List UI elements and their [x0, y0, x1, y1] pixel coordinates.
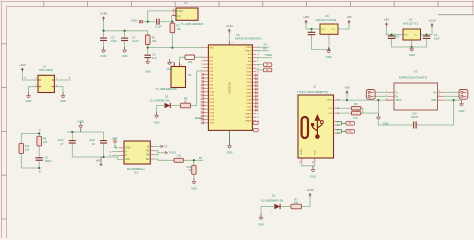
svg-text:IO47: IO47 — [247, 107, 253, 109]
junction U6 gnd rail — [328, 48, 330, 50]
svg-text:6: 6 — [201, 71, 202, 73]
resistor R12 — [192, 165, 196, 174]
net label box D- at U4 — [263, 63, 271, 67]
svg-text:27: 27 — [257, 61, 259, 63]
GND net flag symbol — [140, 20, 143, 23]
svg-text:ESP32-S3-WROOM-1: ESP32-S3-WROOM-1 — [235, 36, 262, 40]
svg-text:42: 42 — [257, 113, 259, 115]
power flag +5V at U2 — [384, 18, 389, 27]
junction VBUS +5V tap — [346, 99, 348, 101]
svg-text:NC: NC — [433, 92, 437, 94]
svg-text:GND: GND — [167, 67, 173, 71]
U4 right pin stubs — [252, 47, 256, 121]
wire U4 D- stub — [256, 64, 263, 66]
svg-text:GND: GND — [310, 175, 316, 179]
J2 D+ lower pins joined — [336, 130, 346, 134]
connector J3 left of U3 — [366, 90, 375, 100]
wire S1 pin3 up to R3 — [180, 57, 185, 62]
wire VBUS drop to C10 loop — [377, 100, 379, 117]
IC1 right pin stubs — [150, 146, 154, 159]
junction 3.8V rail at C4 — [123, 30, 125, 32]
IC1 left pin stubs — [119, 148, 124, 156]
ground symbol under U1 left — [26, 92, 32, 103]
USB connector J2 body — [298, 95, 334, 158]
svg-text:ESP32-S3: ESP32-S3 — [229, 82, 232, 94]
resistor R6 — [351, 111, 360, 115]
U4 right no-connect crosses — [255, 74, 258, 112]
svg-text:CC1: CC1 — [328, 108, 333, 110]
wire U6 input cap to gnd rail — [312, 35, 329, 50]
wire U3 pin4 to J4 — [444, 91, 459, 93]
ground symbol above IC1 rail — [79, 122, 83, 128]
svg-text:TXD0: TXD0 — [246, 47, 252, 49]
wire termination top — [21, 132, 39, 134]
wire C5 top stub — [147, 48, 149, 56]
capacitor C9 0.1uF — [157, 19, 159, 25]
ground symbol under U4 — [227, 142, 233, 154]
J2 inner pin labels — [327, 99, 334, 115]
S1 pin numbers — [173, 65, 183, 67]
arrow mark TX — [161, 145, 164, 148]
svg-text:U5: U5 — [236, 33, 240, 37]
svg-text:IO40: IO40 — [247, 89, 253, 91]
wire U3 GND right — [444, 99, 454, 101]
J2 bottom pin rotated labels — [300, 160, 315, 163]
svg-text:GND: GND — [101, 54, 107, 58]
svg-text:R1: R1 — [152, 35, 156, 39]
small net flags right of U4 lower pins — [254, 121, 259, 132]
wire C3 top stub — [103, 31, 105, 38]
power flag +12V (U1 input) — [19, 63, 26, 72]
U4 right pin numbers — [257, 47, 259, 123]
wire +3.3V to U5 top pin — [228, 33, 230, 41]
capacitor C11 at U6 input — [308, 32, 316, 34]
wire C10 loop right — [417, 100, 454, 125]
ground symbol at IC1 gnd pin — [113, 138, 117, 143]
svg-text:IO12: IO12 — [209, 99, 215, 101]
svg-text:1: 1 — [201, 47, 202, 49]
svg-text:25: 25 — [257, 54, 259, 56]
ground symbol CC pulldown — [376, 114, 380, 120]
gray line top right — [438, 14, 474, 16]
wire termination bottom — [21, 167, 39, 169]
wire +3.8V rail down — [103, 21, 105, 31]
wire IC1 DI to R4 — [154, 159, 174, 160]
svg-text:1uF: 1uF — [152, 56, 157, 60]
wire C10 loop left stub — [377, 121, 379, 126]
wire TXEN label — [158, 152, 167, 154]
junction R2 / EN wire — [171, 46, 173, 48]
svg-text:IO19: IO19 — [247, 65, 253, 67]
U3 inner pin labels — [395, 92, 436, 102]
wire C7 bottom — [71, 143, 73, 157]
junction 5V rail C6 — [102, 156, 104, 158]
svg-text:100: 100 — [188, 60, 193, 64]
J2 bottom shell pins — [302, 158, 315, 162]
K1 pin stubs and numbers — [173, 8, 183, 18]
capacitor C8 — [35, 158, 43, 160]
svg-text:VO: VO — [332, 29, 335, 31]
svg-text:D+: D+ — [349, 129, 353, 133]
svg-text:+3.3V: +3.3V — [226, 24, 234, 28]
S1 top pin stubs — [174, 62, 179, 66]
svg-text:VIN: VIN — [321, 29, 325, 31]
svg-text:IO46: IO46 — [247, 103, 253, 105]
svg-text:TX: TX — [164, 144, 168, 148]
power flag +3.3V at D1 — [306, 188, 314, 197]
wire R3 to ESP32 — [195, 56, 203, 58]
wire R1 bottom to node — [147, 45, 149, 48]
LED D2 symbol — [165, 103, 171, 108]
resistor R8 — [180, 103, 190, 108]
svg-text:GND3: GND3 — [245, 121, 252, 123]
power flag +12V at U6 — [303, 15, 310, 24]
svg-text:+3.3V: +3.3V — [428, 18, 436, 22]
wire R4 to RX node — [183, 159, 203, 161]
svg-text:DI: DI — [147, 146, 150, 148]
svg-text:1.0k: 1.0k — [176, 155, 181, 158]
wire D2 to GND — [156, 106, 158, 116]
svg-text:D-: D- — [349, 121, 352, 125]
svg-text:IO21: IO21 — [209, 123, 215, 125]
svg-text:+3.3V: +3.3V — [306, 188, 314, 192]
svg-text:120: 120 — [25, 148, 30, 151]
wire VBUS to U3 — [336, 99, 394, 101]
svg-text:MAX4835ESA+: MAX4835ESA+ — [127, 167, 146, 171]
J2 connector slot symbol — [302, 117, 308, 138]
svg-text:27uF: 27uF — [58, 139, 64, 142]
wire J3 pin2 to U3 — [375, 95, 388, 97]
svg-text:GND: GND — [191, 187, 197, 191]
wire C3 to GND — [103, 41, 105, 51]
svg-text:2: 2 — [201, 57, 202, 59]
IC1 left pin net labels A B — [110, 150, 112, 157]
wire U2 gnd pin down — [411, 40, 413, 47]
wire U6 gnd pin down — [328, 34, 330, 49]
wire CC2 to R6 — [336, 112, 351, 114]
stub wire into U4 left lower pin — [195, 117, 203, 119]
svg-text:+12V: +12V — [303, 15, 310, 19]
svg-text:10k: 10k — [152, 39, 157, 43]
J2 rotated SHELL GND labels — [301, 147, 317, 155]
wire IC1 pin A net — [112, 151, 119, 153]
svg-text:+5V: +5V — [346, 15, 351, 19]
svg-text:5: 5 — [201, 67, 202, 69]
svg-text:VIN: VIN — [404, 35, 408, 37]
wire CC1 to R5 — [336, 107, 351, 109]
wire J2 shell to gnd — [302, 162, 315, 166]
wire C5 bottom stub — [147, 58, 149, 62]
svg-text:COM: COM — [177, 10, 183, 13]
wire C7 top stub — [71, 132, 73, 141]
svg-text:U2: U2 — [409, 17, 413, 21]
junction gnd rail C7 — [71, 131, 73, 133]
wire IC1 pin B net — [112, 154, 119, 156]
svg-text:DE: DE — [146, 159, 150, 161]
resistor R1 — [145, 35, 150, 45]
wire D1 anode — [261, 206, 274, 208]
svg-text:IO18: IO18 — [209, 119, 215, 121]
net label box D- at J2 — [346, 121, 354, 125]
ground symbol under U1 right — [60, 92, 66, 103]
wire EN to ESP32 — [148, 47, 203, 49]
svg-text:IO15: IO15 — [209, 109, 215, 111]
U3 left pin stubs — [385, 92, 394, 100]
junction VBUS gnd drop — [377, 99, 379, 101]
wire C6 bottom — [103, 143, 105, 157]
ESP32 module U5 body — [208, 45, 252, 130]
wire C8 bottom — [38, 160, 40, 168]
touch IC S1 body — [171, 67, 186, 88]
ground symbol under C5 — [145, 58, 151, 74]
svg-text:SL-1608UBC-0N: SL-1608UBC-0N — [150, 99, 170, 103]
U4 right pin labels — [245, 47, 252, 123]
regulator U1 body — [38, 75, 54, 92]
svg-text:RO: RO — [146, 151, 150, 153]
svg-text:RE: RE — [146, 155, 150, 157]
wire C4 to GND — [124, 41, 126, 51]
svg-text:+3.8V: +3.8V — [100, 12, 108, 16]
wire K1 pin2 left then down — [171, 16, 174, 22]
svg-text:GND: GND — [154, 121, 160, 125]
svg-text:7807-DPAK: 7807-DPAK — [39, 68, 54, 72]
svg-text:S1: S1 — [188, 73, 192, 77]
U4 left pin labels — [209, 47, 215, 124]
wire U6 VO right up — [338, 24, 349, 29]
wire R8 to ESP32 IO — [191, 71, 203, 106]
ground symbol under C4 — [122, 47, 128, 58]
U3 right pin numbers — [439, 91, 441, 97]
junction U2 output cap — [425, 33, 427, 35]
svg-text:D-: D- — [266, 63, 269, 67]
resistor R4 — [174, 158, 183, 162]
svg-text:R11: R11 — [25, 145, 30, 148]
wire U1 left pin2 to GND — [29, 87, 39, 96]
svg-text:IO16: IO16 — [209, 112, 215, 114]
svg-text:+5V: +5V — [384, 18, 389, 22]
wire +12V to U1 pin 1 — [22, 72, 30, 80]
U6 inner pin labels — [321, 29, 335, 31]
wire S1 pin4 to GND — [170, 61, 175, 63]
wire U2 input cap to gnd rail — [392, 38, 412, 47]
wire J3 pin1 to U3 — [375, 91, 388, 93]
J2 USB trident symbol — [311, 115, 323, 139]
capacitor C2 at U2 input — [388, 36, 396, 38]
svg-text:+5V: +5V — [344, 86, 349, 90]
svg-text:GND: GND — [227, 151, 233, 155]
svg-text:30: 30 — [257, 71, 259, 73]
svg-text:C10: C10 — [412, 112, 417, 116]
wire 5V rail under caps — [72, 157, 124, 159]
svg-text:VBUS: VBUS — [327, 99, 333, 101]
junction U2 gnd rail — [411, 46, 413, 48]
relay K1 body — [176, 8, 198, 20]
junction 3.8V rail at C3 — [102, 30, 104, 32]
svg-text:GND: GND — [431, 100, 436, 102]
svg-text:C3: C3 — [111, 35, 115, 39]
svg-text:IO14: IO14 — [209, 105, 215, 107]
svg-text:GND: GND — [60, 99, 66, 103]
svg-text:IO36: IO36 — [247, 75, 253, 77]
svg-text:IO48: IO48 — [247, 110, 253, 112]
wire U4 D+ stub — [256, 69, 263, 71]
wire C6 top stub — [103, 132, 105, 141]
svg-text:IO17: IO17 — [209, 116, 215, 118]
svg-text:100nF: 100nF — [411, 115, 419, 119]
svg-text:U3: U3 — [414, 69, 418, 73]
power arrow +5V at IC1 — [99, 163, 102, 166]
svg-text:GND: GND — [122, 54, 128, 58]
svg-text:22uF: 22uF — [111, 39, 117, 43]
wire J2 gnd drop — [312, 166, 314, 170]
ground symbol under J2 — [310, 166, 316, 179]
wire CC resistors join — [361, 108, 363, 113]
svg-text:ESPROG2/AUTOMATIC: ESPROG2/AUTOMATIC — [399, 76, 427, 80]
svg-text:0.1uF: 0.1uF — [132, 39, 139, 43]
U4 left pin numbers — [200, 47, 202, 124]
svg-text:SHELL: SHELL — [301, 147, 303, 155]
svg-text:IO45: IO45 — [247, 100, 253, 102]
ground symbol under D1 — [258, 214, 264, 227]
wire CC join to gnd node — [363, 112, 379, 114]
right border stub top corner — [472, 2, 474, 16]
power flag +5V at U6 output — [346, 15, 351, 24]
wire 3.8V horizontal rail — [104, 30, 148, 32]
U4 left pin stubs — [203, 48, 209, 123]
wire R12 top stub — [193, 160, 195, 165]
svg-text:AZ1117H-5 DFN4: AZ1117H-5 DFN4 — [316, 18, 337, 22]
svg-text:10k: 10k — [177, 27, 182, 31]
IC1 inner pin labels — [125, 146, 149, 161]
svg-text:GND2: GND2 — [245, 117, 252, 119]
wire R1 top stub — [147, 31, 149, 35]
svg-text:100pF: 100pF — [45, 160, 53, 163]
junction R4 R12 — [193, 159, 195, 161]
wire termination left down — [20, 133, 22, 143]
regulator U2 body — [403, 29, 421, 40]
svg-text:TXEN: TXEN — [169, 151, 176, 155]
svg-text:IO20: IO20 — [247, 68, 253, 70]
svg-text:10uF: 10uF — [394, 36, 400, 39]
svg-text:TL-1088-AR03936: TL-1088-AR03936 — [181, 22, 204, 26]
junction U6 input cap — [310, 28, 312, 30]
svg-text:IO35: IO35 — [247, 72, 253, 74]
svg-text:430: 430 — [294, 200, 299, 204]
svg-text:5.1k: 5.1k — [353, 117, 358, 120]
U4 left no-connect crosses — [202, 73, 205, 124]
svg-text:GND: GND — [459, 109, 465, 113]
wire U2 output cap to gnd rail — [412, 38, 427, 47]
U5 top pin stub — [228, 42, 230, 45]
svg-text:IC1: IC1 — [134, 171, 139, 175]
svg-text:120: 120 — [43, 141, 48, 144]
svg-text:22uF: 22uF — [434, 38, 440, 41]
resistor R9 — [37, 136, 42, 146]
svg-text:IO41: IO41 — [247, 93, 253, 95]
ground symbol at S1 pin4 — [167, 59, 173, 71]
node B termination — [38, 167, 40, 169]
junction U2 input cap — [390, 33, 392, 35]
svg-text:GND: GND — [314, 150, 316, 155]
J2 D- upper pins joined — [336, 122, 346, 126]
wire U4 RXD0 — [256, 50, 269, 52]
U1 inner pin marks — [39, 80, 55, 87]
capacitor C7 — [69, 141, 76, 143]
svg-text:+5V: +5V — [95, 159, 100, 163]
wire U2 input cap stub — [391, 35, 393, 36]
svg-text:TYPE-C 16PIN (MID[BTTO]: TYPE-C 16PIN (MID[BTTO] — [297, 91, 328, 94]
wire D2 cathode to R8 — [170, 105, 180, 107]
wire K1 pin1 left then down — [148, 11, 173, 22]
U1 pin numbers — [35, 78, 58, 87]
svg-text:GND: GND — [258, 223, 264, 227]
svg-text:CC2: CC2 — [328, 113, 333, 115]
wire U4 TXD0 — [256, 46, 269, 48]
svg-text:C4: C4 — [132, 35, 136, 39]
svg-text:RXD0: RXD0 — [246, 51, 253, 53]
transceiver IC1 body — [124, 141, 150, 164]
wire C9 to K1 pin2 node — [161, 21, 173, 23]
svg-text:RX: RX — [199, 156, 203, 160]
hierarchical sheet U3 body — [394, 83, 438, 110]
svg-text:+12V: +12V — [19, 63, 26, 67]
wire U1 right pin2 to GND — [54, 87, 63, 96]
wire IC1 gnd pin — [115, 145, 118, 148]
svg-text:NO: NO — [177, 15, 181, 18]
regulator U6 body — [320, 24, 338, 34]
resistor R5 — [351, 106, 360, 110]
wire R11 bottom — [20, 153, 22, 168]
wire R9 to C8 — [38, 146, 40, 158]
J2 right pin numbers — [337, 100, 340, 135]
wire GND flag to C9 — [143, 21, 156, 23]
D2 pin marks — [162, 110, 164, 112]
svg-text:D1: D1 — [272, 194, 276, 198]
resistor R3 — [185, 55, 195, 59]
resistor R11 — [19, 144, 24, 154]
svg-text:R2: R2 — [177, 24, 181, 28]
svg-text:GND: GND — [145, 69, 151, 73]
svg-text:GND: GND — [409, 53, 415, 57]
svg-text:GND: GND — [112, 138, 118, 141]
power flag +3.3V at U2 output — [428, 18, 436, 27]
wire U1 output right — [54, 79, 71, 81]
svg-text:43: 43 — [257, 117, 259, 119]
svg-text:D+: D+ — [266, 68, 270, 72]
wire U3 GND arrow stub — [454, 99, 462, 101]
wire U1 pin1 stub — [31, 79, 39, 81]
wire D1 cathode to R7 — [280, 206, 291, 208]
arrow mark TXEN — [165, 151, 168, 154]
svg-text:IO11: IO11 — [209, 95, 214, 97]
U3 left pin numbers — [386, 91, 388, 101]
wire +12V to U6 VIN — [306, 24, 320, 29]
wire R12 to GND — [193, 174, 195, 181]
power flag +3.3V at U5 top — [226, 24, 234, 33]
wire R2 bottom to EN node — [171, 33, 173, 48]
wire IC1 RO to TX label — [154, 145, 163, 147]
junction K1 pin2 / R2 — [171, 21, 173, 23]
svg-text:4: 4 — [201, 64, 202, 66]
ground symbol under D2 — [154, 112, 160, 125]
resistor R2 — [170, 23, 175, 33]
wire +5V tap up — [346, 95, 348, 100]
wire U4 TXEN — [256, 57, 272, 59]
junction R1/C5/EN — [147, 46, 149, 48]
net label box D+ at U4 — [263, 68, 271, 72]
connector J4 right of U3 — [459, 90, 468, 100]
wire R9 top stub — [38, 133, 40, 136]
